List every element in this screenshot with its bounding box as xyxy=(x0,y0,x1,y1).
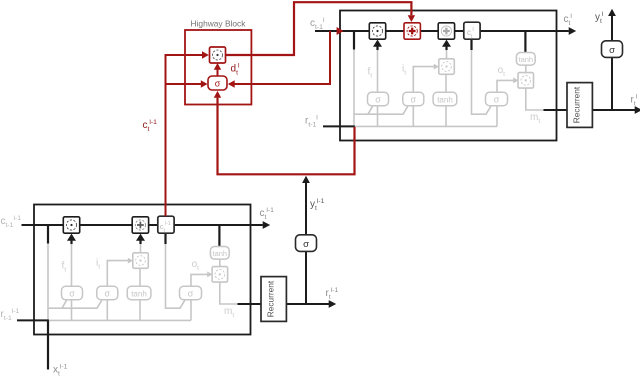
svg-text:tanh: tanh xyxy=(437,95,453,104)
svg-text:tanh: tanh xyxy=(212,249,227,258)
svg-text:Recurrent: Recurrent xyxy=(266,280,276,317)
svg-text:σ: σ xyxy=(303,239,309,250)
svg-text:σ: σ xyxy=(188,288,194,298)
svg-text:tanh: tanh xyxy=(518,55,533,64)
svg-text:σ: σ xyxy=(494,94,500,104)
svg-text:σ: σ xyxy=(609,45,615,56)
svg-text:σ: σ xyxy=(105,288,111,298)
svg-text:σ: σ xyxy=(69,288,75,298)
svg-text:tanh: tanh xyxy=(131,289,147,298)
svg-text:σ: σ xyxy=(375,94,381,104)
svg-text:Recurrent: Recurrent xyxy=(572,86,582,123)
svg-text:σ: σ xyxy=(215,78,221,88)
svg-text:σ: σ xyxy=(411,94,417,104)
svg-text:Highway Block: Highway Block xyxy=(191,19,247,29)
